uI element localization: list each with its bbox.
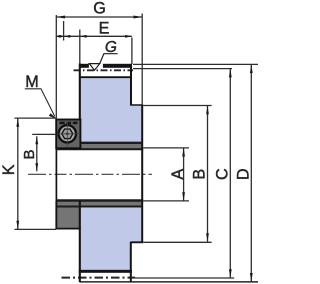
dimension A bottom extension — [143, 200, 189, 202]
dimension E line — [56, 35, 132, 37]
dimension B line — [207, 106, 209, 242]
node: teeth bar top (black band of teeth) — [79, 64, 132, 68]
node: upper blue body (web upper half) — [80, 78, 132, 142]
dimension C top arrow — [229, 69, 232, 78]
dimension E right arrow — [125, 35, 132, 38]
dimension hub-stub right arrow (tip at stub line) — [59, 35, 64, 38]
wire: body left face (top section) — [79, 63, 81, 119]
node: lower hub gray block — [55, 201, 80, 229]
wire: bottom tip line with D bottom extension — [80, 281, 258, 283]
dimension G extension left — [55, 15, 57, 119]
svg-text:D: D — [235, 168, 253, 180]
wire: band bottom line (lower, top of lower web) — [56, 205, 141, 207]
dimension B top extension — [143, 105, 211, 107]
dimension wall left arrow (tip at stub line) — [64, 35, 71, 38]
wire: body left face (bottom section) — [79, 201, 81, 282]
dimension A line — [183, 148, 185, 201]
wire: boss top line — [131, 104, 144, 106]
dimension C bottom arrow — [229, 269, 232, 278]
label M leader line — [25, 89, 55, 117]
dimension D bottom arrow — [250, 273, 253, 282]
node: lower gray sleeve band (between bore and body) — [56, 201, 141, 206]
wire: bore bottom line — [56, 199, 143, 201]
dimension G extension right — [141, 14, 143, 106]
wire: boss right face — [141, 105, 143, 242]
screw thread marks at top — [59, 122, 64, 125]
dimension D top extension — [133, 63, 258, 65]
dimension E extension left stub — [63, 21, 65, 41]
screw hex socket — [62, 129, 73, 139]
svg-text:C: C — [214, 168, 232, 180]
dimension D line — [250, 65, 252, 282]
dimension B-left top extension — [32, 133, 56, 135]
wire: bottom pitch dash-dot line — [62, 277, 136, 279]
arrowheads — [16, 16, 252, 282]
svg-text:G: G — [105, 39, 117, 56]
dimension G right arrow — [134, 16, 143, 19]
dimension K top extension — [15, 117, 57, 119]
dimension B bottom extension — [143, 241, 211, 243]
screw crosshair vertical — [66, 122, 68, 147]
dimension D top arrow — [250, 65, 253, 74]
dimension C top extension — [133, 68, 232, 70]
node: lower blue body (web lower half) — [80, 208, 132, 270]
dimension A top arrow — [182, 148, 185, 157]
wire: bore centerline (dash-dot, axis of pulley) — [28, 173, 152, 175]
dimension B-left top arrow — [35, 136, 38, 144]
wire: bore top line — [56, 148, 143, 150]
screw crosshair horizontal — [58, 133, 81, 135]
node: upper boss blue (right step) — [131, 105, 142, 142]
wire: hub left face — [55, 119, 57, 229]
svg-text:B: B — [21, 149, 38, 159]
dimension B bottom arrow — [206, 233, 209, 242]
dimension A top extension — [143, 147, 189, 149]
dimension K bottom arrow — [16, 221, 19, 230]
wire: rim right face (top) — [130, 64, 132, 106]
wire: top pitch dash-dot line — [74, 69, 134, 71]
wire: band top line (upper) — [56, 142, 141, 144]
screw center mark — [66, 133, 69, 136]
dimension E left arrow (tip at body face) — [80, 35, 87, 38]
svg-text:K: K — [0, 164, 18, 175]
label M leader arrow — [49, 113, 56, 118]
dimension B top arrow — [206, 106, 209, 115]
dimension A bottom arrow — [182, 192, 185, 201]
svg-text:E: E — [99, 20, 110, 38]
node: upper gray sleeve band (between body and bore) — [56, 144, 141, 149]
dimension E extension mid stub (body left face) — [79, 30, 81, 65]
dimension K line — [17, 118, 19, 229]
dimension hub-stub left arrow (tip at hub face) — [56, 35, 61, 38]
svg-text:M: M — [25, 73, 38, 91]
wire: body right face (bottom) — [130, 242, 132, 282]
svg-text:B: B — [191, 169, 209, 180]
dimension B-left bottom arrow — [35, 163, 38, 171]
node: bottom web/root bar — [79, 270, 132, 273]
dimension K top arrow — [16, 118, 19, 127]
dimension G line — [56, 16, 142, 18]
wire: web top line — [80, 76, 132, 78]
svg-text:G: G — [93, 0, 106, 17]
dimension C line — [229, 69, 231, 278]
screw outer circle — [59, 125, 76, 142]
node: surface finish triangle (white gap + outline) — [89, 54, 118, 70]
dimension G left arrow — [56, 16, 65, 19]
wire: boss bottom line — [131, 241, 144, 243]
dimension E extension right — [131, 38, 133, 65]
svg-text:A: A — [169, 169, 187, 180]
node: lower boss blue (right step) — [131, 208, 142, 243]
wire: lower hub block bottom edge — [56, 228, 81, 230]
set screw M block (hub upper wall with socket set screw) — [56, 120, 80, 149]
dimension B-left line — [36, 136, 38, 171]
dimension C bottom extension — [135, 277, 234, 279]
dimension K bottom extension — [15, 228, 57, 230]
